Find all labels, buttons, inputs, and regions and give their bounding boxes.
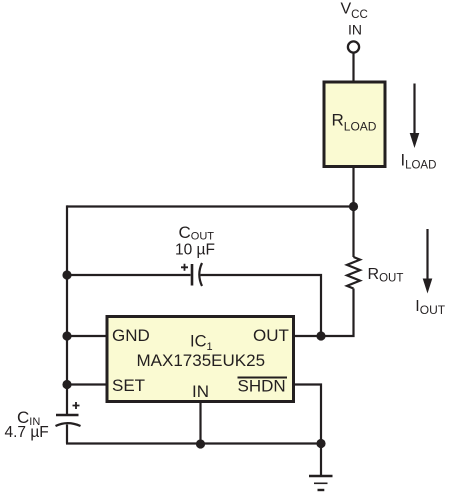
wire: RLOAD bottom to ROUT top: [352, 167, 354, 258]
junction dot: left rail / cap wire: [62, 270, 71, 279]
junction dot: left rail / GND: [62, 331, 71, 340]
pin label IN: [192, 382, 209, 401]
ground: [309, 444, 333, 491]
svg-text:10 µF: 10 µF: [175, 242, 215, 259]
junction dot: OUT node: [316, 331, 325, 340]
wire: top horizontal (left rail to RLOAD/ROUT node): [67, 205, 354, 207]
arrow ILOAD: [410, 84, 420, 149]
wire: bottom horizontal rail: [66, 442, 321, 444]
svg-text:SHDN: SHDN: [238, 377, 286, 396]
label 10 uF: [175, 242, 215, 259]
wire: SET pin to left rail: [67, 383, 106, 385]
label ILOAD: [401, 152, 437, 172]
pin label SHDN (with overline): [238, 377, 288, 396]
capacitor COUT plates: [192, 263, 202, 286]
op-amp U1: IC MAX1735EUK25 (box): [107, 317, 294, 402]
wire: left rail vertical: [66, 205, 68, 415]
label IC1: [190, 333, 213, 353]
capacitor COUT plus sign: [181, 264, 188, 271]
svg-text:OUT: OUT: [253, 326, 289, 345]
label COUT: [179, 223, 215, 243]
wire: SHDN pin right and down to bottom rail: [295, 385, 321, 444]
label RLOAD: [332, 111, 377, 134]
arrow IOUT: [423, 229, 433, 294]
label IOUT: [415, 298, 445, 317]
svg-text:IN: IN: [348, 22, 362, 38]
pin label SET: [112, 376, 145, 395]
capacitor CIN plates: [56, 415, 81, 426]
wire: IN terminal to RLOAD top: [352, 53, 354, 83]
label MAX1735EUK25: [137, 351, 266, 370]
junction dot: SHDN / bottom rail / ground: [316, 439, 325, 448]
pin label GND: [112, 326, 150, 345]
svg-text:GND: GND: [112, 326, 150, 345]
resistor RLOAD (box): [324, 82, 385, 167]
wire: GND pin to left rail: [67, 335, 106, 337]
junction dot: top node: [349, 202, 358, 211]
node VCC label: [341, 1, 368, 22]
wire: cap right segment then down to OUT node: [201, 275, 322, 336]
resistor ROUT (zigzag): [347, 257, 360, 289]
label 4.7 uF: [5, 424, 49, 441]
junction dot: IN / bottom rail: [196, 439, 205, 448]
wire: cap left segment: [67, 274, 191, 276]
svg-text:4.7 µF: 4.7 µF: [5, 424, 49, 441]
junction dot: left rail / SET: [62, 380, 71, 389]
svg-text:MAX1735EUK25: MAX1735EUK25: [137, 351, 266, 370]
svg-text:SET: SET: [112, 376, 145, 395]
wire: ROUT bottom to OUT pin wire: [295, 289, 354, 337]
capacitor CIN plus sign: [73, 402, 80, 409]
svg-text:IN: IN: [192, 382, 209, 401]
terminal IN (open circle): [348, 41, 359, 52]
node IN label: [348, 22, 362, 38]
wire: IN pin down to bottom rail: [199, 402, 201, 444]
label ROUT: [368, 266, 404, 285]
wire: CIN bottom to bottom rail corner: [67, 425, 68, 443]
label CIN: [17, 408, 40, 428]
pin label OUT: [253, 326, 289, 345]
